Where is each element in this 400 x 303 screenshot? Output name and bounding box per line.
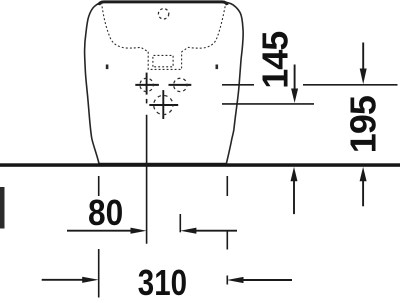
svg-text:195: 195 (342, 95, 383, 153)
310 dim: left extension dashes x=98.7 (98, 176, 100, 196)
upper-right hole crosshair (169, 78, 192, 91)
left fixation mark (106, 65, 109, 70)
bidet outer silhouette (85, 2, 244, 164)
svg-text:145: 145 (254, 31, 295, 89)
dim 195 upper segment + down arrow (362, 43, 364, 72)
extension line y=103.9 right (222, 103, 314, 105)
svg-text:80: 80 (88, 193, 123, 233)
dim 145 lower segment + up arrow below floor (291, 167, 298, 181)
bidet top edge (arched, thicker) (99, 2, 227, 5)
left wall bar (0, 187, 5, 229)
floor line (0, 163, 400, 167)
dotted rim contour left (102, 3, 149, 52)
faucet deck inner rect (dotted) (153, 55, 173, 66)
svg-text:310: 310 (138, 262, 187, 302)
top inlet dotted circle (158, 9, 168, 19)
80 dim leader + right-pointing arrow (67, 230, 133, 232)
310 dim leader left + right-pointing arrow (42, 279, 85, 281)
lower hole crosshair (149, 90, 178, 119)
right fixation mark (216, 65, 219, 70)
extension line y=84.8 right (222, 84, 254, 86)
upper-left hole crosshair (135, 73, 159, 95)
dotted rim contour right (182, 3, 226, 52)
80 dim: right hole extension tick (179, 214, 181, 232)
faucet deck outer (dotted) (148, 52, 181, 70)
80 dim: left hole extension below (146, 99, 148, 104)
label 195 (rotated, halo) (348, 89, 377, 150)
310 dim leader right + left-pointing arrow (227, 277, 244, 283)
80 dim second arrow (left-pointing) + tail (180, 228, 196, 234)
dim 195 lower segment + up arrow below floor (360, 167, 367, 181)
dim 145 upper segment + down arrow (294, 65, 296, 92)
310 dim: right extension dashes x=227.3 (226, 176, 228, 196)
